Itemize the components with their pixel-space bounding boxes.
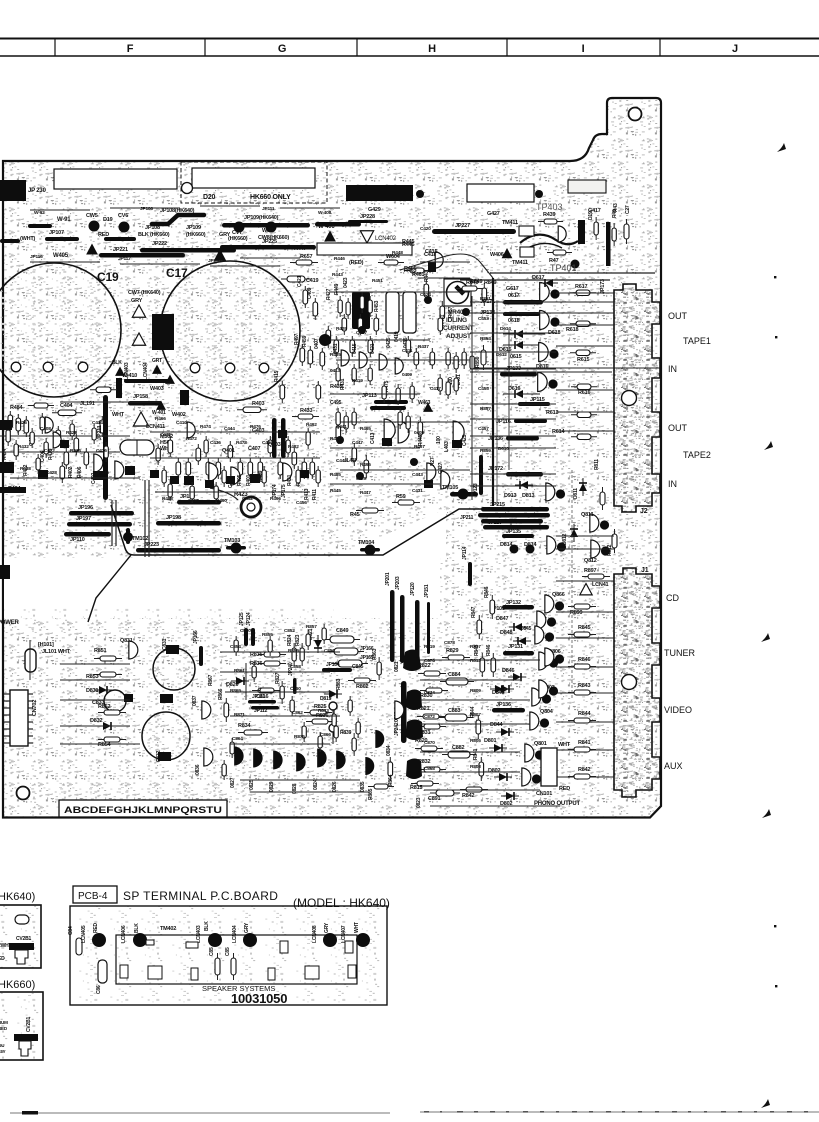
transistor Q802 — [522, 768, 541, 786]
ruler tick — [506, 39, 508, 57]
svg-text:C858: C858 — [290, 664, 301, 670]
transistor Q402 — [45, 417, 53, 433]
resistor R614 — [571, 434, 597, 440]
resistor — [56, 426, 61, 447]
svg-text:R883: R883 — [336, 678, 342, 690]
wire — [220, 671, 330, 673]
svg-text:C404: C404 — [60, 403, 73, 409]
svg-text:RED: RED — [559, 786, 570, 792]
svg-text:TM102: TM102 — [132, 536, 148, 542]
resistor R441 — [440, 301, 445, 324]
wire — [336, 359, 470, 361]
resistor — [214, 482, 218, 503]
resistor — [204, 436, 208, 457]
svg-text:D913: D913 — [504, 493, 516, 499]
svg-text:R496: R496 — [270, 496, 281, 502]
bottom rule dash — [474, 1111, 478, 1113]
svg-text:C456: C456 — [296, 500, 307, 506]
pad — [170, 476, 179, 484]
small square — [305, 966, 319, 979]
svg-text:JP124: JP124 — [246, 612, 252, 626]
jumper JP111 — [248, 700, 276, 704]
svg-text:Q804: Q804 — [540, 709, 554, 715]
svg-text:R406: R406 — [77, 466, 83, 478]
margin mark — [775, 336, 777, 338]
margin mark — [761, 633, 770, 642]
vent hole C17 — [190, 363, 200, 373]
svg-text:JP215: JP215 — [490, 502, 505, 508]
pin — [4, 714, 10, 716]
resistor — [302, 722, 306, 742]
pad — [358, 326, 366, 334]
resistor — [348, 696, 352, 716]
svg-text:JP172: JP172 — [488, 466, 503, 472]
transistor — [94, 454, 103, 472]
pad dot — [535, 190, 543, 198]
svg-text:TM411: TM411 — [512, 260, 528, 266]
transistor Q837 — [202, 701, 211, 719]
resistor — [462, 348, 466, 369]
svg-text:H: H — [428, 43, 436, 55]
test point ring — [329, 724, 337, 732]
svg-text:R657: R657 — [300, 254, 312, 260]
svg-text:JP112: JP112 — [254, 708, 268, 714]
svg-text:R859: R859 — [288, 648, 299, 654]
svg-text:BLK (HK660): BLK (HK660) — [138, 232, 170, 238]
diode D802 — [501, 792, 519, 800]
jumper JP225 — [220, 245, 316, 250]
svg-text:R59: R59 — [396, 494, 406, 500]
pad — [60, 440, 69, 448]
resistor — [326, 326, 331, 348]
svg-text:R865: R865 — [368, 788, 374, 800]
bottom rule dash — [572, 1111, 577, 1113]
svg-text:JP136: JP136 — [496, 702, 511, 708]
svg-text:R871: R871 — [234, 712, 245, 718]
svg-text:JP115: JP115 — [530, 397, 545, 403]
transistor 0827 (black) — [234, 747, 244, 766]
transistor — [427, 463, 436, 481]
transistor 0824 (black) — [317, 749, 327, 768]
svg-text:C431: C431 — [412, 488, 423, 494]
capacitor C883 — [439, 714, 473, 721]
wire — [470, 332, 556, 334]
wire — [470, 447, 556, 449]
svg-text:C457: C457 — [478, 426, 489, 432]
svg-text:J1: J1 — [641, 567, 649, 574]
svg-text:(RED): (RED) — [349, 260, 364, 266]
transistor Q615 — [539, 343, 559, 362]
svg-text:0827: 0827 — [230, 777, 236, 788]
resistor JL191 — [90, 387, 117, 393]
svg-text:C86: C86 — [96, 985, 102, 994]
resistor R461 — [404, 268, 430, 273]
svg-text:TAPE2: TAPE2 — [683, 450, 711, 460]
svg-text:C872: C872 — [424, 714, 435, 720]
svg-text:WHT: WHT — [354, 922, 360, 933]
svg-text:0429: 0429 — [356, 476, 366, 482]
svg-text:R425: R425 — [330, 436, 341, 442]
svg-text:C452: C452 — [242, 496, 253, 502]
svg-text:R411: R411 — [312, 489, 318, 500]
svg-text:R614: R614 — [552, 429, 565, 435]
svg-text:R834: R834 — [238, 723, 251, 729]
svg-text:R446: R446 — [334, 256, 345, 262]
resistor — [303, 286, 308, 308]
pad — [92, 933, 106, 947]
jumper bar right of CW8 — [315, 222, 361, 227]
resistor — [60, 462, 65, 483]
connector CN702 — [10, 690, 28, 746]
svg-text:JP203: JP203 — [395, 576, 401, 590]
svg-text:JP225: JP225 — [262, 239, 277, 245]
mounting hole top-right — [629, 108, 642, 121]
svg-text:POWER: POWER — [0, 620, 20, 626]
SP terminal board outer box — [70, 906, 387, 1005]
resistor R822 — [418, 671, 446, 676]
svg-text:R445: R445 — [402, 239, 414, 245]
transistor Q618 — [540, 311, 560, 330]
jumper JP125 (vertical) — [251, 628, 255, 646]
wire — [420, 679, 520, 681]
bottom rule left — [10, 1112, 390, 1114]
resistor — [352, 364, 356, 385]
jumper JP124 (vertical) — [244, 628, 248, 646]
black bar — [9, 943, 34, 950]
svg-text:R867: R867 — [208, 674, 214, 686]
pad — [323, 933, 337, 947]
transistor — [441, 471, 450, 489]
svg-text:JP109(HK640): JP109(HK640) — [244, 215, 279, 221]
transistor Q834 (black) — [375, 730, 384, 748]
resistor R845p — [568, 632, 596, 637]
transistor — [231, 467, 240, 485]
wire marker — [214, 249, 227, 261]
resistor R842b — [460, 787, 488, 792]
transistor C413 pair — [384, 419, 395, 441]
transistor — [115, 461, 124, 479]
small rect — [268, 968, 275, 980]
resistor — [186, 458, 191, 479]
wire — [250, 791, 370, 793]
svg-text:R862: R862 — [356, 684, 368, 690]
pin — [4, 735, 10, 737]
svg-text:D820: D820 — [226, 682, 238, 688]
jumper JP174 (vertical) — [272, 418, 277, 458]
svg-text:R495: R495 — [360, 462, 371, 468]
wire — [556, 389, 614, 391]
wire — [60, 725, 130, 727]
svg-text:ED: ED — [0, 956, 5, 962]
wire — [430, 805, 560, 807]
svg-text:R854: R854 — [98, 742, 111, 748]
resistor — [336, 421, 341, 444]
svg-text:0823: 0823 — [416, 797, 422, 808]
connector strip (top left white rect) — [54, 169, 177, 189]
svg-text:ADJUST: ADJUST — [446, 333, 471, 340]
resistor R825 — [304, 710, 332, 715]
terminal ring R423 — [241, 497, 261, 517]
black pad — [158, 752, 171, 761]
capacitor C831 (can) — [153, 648, 195, 690]
svg-text:C423: C423 — [420, 292, 431, 298]
svg-text:R432: R432 — [18, 444, 29, 450]
vent hole C19 — [11, 362, 21, 372]
diode D813 — [515, 481, 533, 489]
svg-text:LCN406: LCN406 — [121, 925, 127, 943]
svg-text:R857: R857 — [306, 624, 317, 630]
transistor Q423 (power, black) — [352, 292, 370, 329]
transistor Q805col — [535, 626, 554, 644]
wire — [150, 457, 320, 459]
wire — [420, 751, 520, 753]
wire — [110, 207, 180, 209]
wire — [155, 491, 310, 493]
capacitor C419 — [281, 276, 311, 282]
svg-text:R846: R846 — [484, 586, 490, 598]
dashed vertical line — [571, 470, 573, 700]
wire — [230, 743, 330, 745]
wire pair down — [111, 500, 113, 546]
jumper JP198 — [156, 521, 221, 526]
svg-text:R465: R465 — [360, 426, 371, 432]
black pad — [452, 440, 462, 448]
pad circle left of D20 — [182, 183, 193, 194]
fuse M502 capsule — [120, 440, 154, 455]
resistor — [290, 696, 294, 716]
resistor — [374, 314, 379, 335]
resistor — [40, 413, 45, 434]
wire — [420, 261, 470, 263]
svg-text:IN: IN — [668, 364, 677, 374]
resistor — [252, 662, 256, 682]
jumper JP116 — [514, 419, 547, 423]
svg-text:R439: R439 — [543, 212, 555, 218]
vertical wire — [471, 296, 473, 500]
resistor R862 — [348, 678, 376, 683]
diode D820 — [231, 677, 249, 685]
svg-text:R466: R466 — [155, 416, 166, 422]
white rect near TP403 — [568, 180, 606, 193]
resistor R841v — [479, 757, 484, 781]
wire — [420, 659, 540, 661]
svg-text:GRY: GRY — [244, 922, 250, 933]
svg-text:R846: R846 — [486, 644, 492, 656]
wire (curved) — [210, 488, 238, 500]
capacitor C882 — [442, 751, 476, 758]
terminal W403 blob — [180, 390, 189, 405]
resistor — [368, 296, 372, 317]
black bar — [116, 378, 122, 398]
resistor R852 — [98, 710, 126, 715]
svg-text:R438: R438 — [20, 466, 31, 472]
jumper JP222 — [140, 248, 236, 253]
svg-text:LCN403: LCN403 — [196, 925, 202, 943]
vent hole C19 — [43, 362, 53, 372]
small rect — [280, 941, 288, 953]
svg-text:R864: R864 — [388, 774, 394, 786]
jumper JP171 — [503, 300, 543, 305]
svg-text:Q417: Q417 — [356, 330, 367, 336]
small square — [148, 966, 162, 979]
wire — [556, 312, 614, 314]
bottom rule dash — [754, 1111, 757, 1113]
transistor Q804 — [530, 712, 549, 730]
wire — [0, 451, 120, 453]
resistor R830 — [420, 688, 448, 693]
svg-text:I: I — [582, 43, 585, 55]
bottom rule right — [420, 1111, 819, 1113]
jumper JP135 — [502, 534, 534, 538]
resistor R613 — [571, 412, 597, 418]
resistor — [222, 466, 226, 487]
svg-text:C412: C412 — [262, 440, 273, 446]
svg-text:C425: C425 — [462, 434, 468, 446]
resistor R832 — [418, 767, 446, 772]
svg-text:D811: D811 — [573, 488, 579, 499]
svg-text:JP120: JP120 — [410, 582, 416, 596]
resistor — [446, 348, 450, 369]
svg-text:0826: 0826 — [332, 781, 338, 792]
svg-text:D801: D801 — [484, 738, 496, 744]
capacitor C816 — [254, 688, 280, 693]
wire — [470, 435, 556, 437]
small rect — [146, 940, 154, 945]
svg-text:0835: 0835 — [360, 781, 366, 792]
terminal W-401 — [156, 401, 166, 410]
transistor Q617 — [540, 283, 560, 302]
bottom rule dash — [672, 1111, 677, 1113]
wire — [556, 430, 614, 432]
resistor — [176, 458, 181, 479]
wire — [470, 312, 556, 314]
transistor Q820 (black) — [403, 650, 421, 672]
svg-text:R873: R873 — [318, 708, 329, 714]
test point TM104 — [360, 548, 380, 552]
jumper JP123 (vertical) — [479, 455, 483, 495]
svg-text:JP114: JP114 — [462, 546, 468, 560]
svg-text:R851: R851 — [94, 648, 106, 654]
svg-text:03Y: 03Y — [0, 1049, 6, 1054]
transistor Q806 — [539, 652, 558, 670]
svg-text:JP227: JP227 — [455, 223, 470, 229]
diode D618b — [510, 330, 528, 338]
wire — [556, 637, 614, 639]
jumper JP201 (vertical) — [390, 590, 395, 662]
svg-text:C860: C860 — [290, 686, 301, 692]
black bar G417 — [578, 220, 585, 244]
resistor — [8, 411, 13, 432]
resistor R831 — [418, 724, 446, 729]
svg-text:W406: W406 — [490, 252, 504, 258]
svg-text:R823: R823 — [295, 634, 301, 646]
svg-text:R419: R419 — [352, 378, 363, 384]
wire diagonal b — [446, 254, 493, 278]
wire — [470, 351, 556, 353]
resistor — [258, 458, 263, 479]
wire — [245, 663, 247, 700]
wire — [556, 301, 614, 303]
svg-text:C850: C850 — [240, 628, 251, 634]
resistor — [238, 458, 243, 479]
resistor — [446, 378, 450, 399]
pad D814 — [510, 545, 519, 554]
svg-text:JP116: JP116 — [30, 254, 43, 260]
resistor R403 — [237, 407, 267, 413]
jumper JP172 — [506, 472, 543, 477]
resistor — [24, 416, 29, 437]
pad — [424, 296, 432, 304]
resistor R863v — [377, 657, 381, 680]
resistor R616 — [571, 384, 597, 390]
svg-text:JP198: JP198 — [166, 515, 181, 521]
transistor — [187, 422, 195, 438]
diode D19 (vertical) — [594, 217, 598, 240]
resistor — [168, 480, 172, 501]
svg-text:CD: CD — [666, 593, 679, 603]
resistor JL431 — [352, 443, 357, 466]
diode D845 — [496, 685, 514, 693]
jumper JP136c — [492, 708, 525, 713]
wire — [220, 651, 340, 653]
resistor R843 — [568, 690, 596, 695]
wire — [120, 263, 200, 265]
jumper JP240 (vertical) — [293, 678, 297, 694]
margin mark — [761, 1099, 770, 1108]
svg-text:RED: RED — [93, 922, 99, 933]
svg-text:0829: 0829 — [269, 781, 275, 792]
svg-text:0409: 0409 — [402, 372, 412, 378]
transistor Q847 — [537, 611, 556, 629]
wire — [556, 749, 614, 751]
resistor — [268, 636, 272, 656]
pad — [356, 472, 364, 480]
black pad — [93, 471, 103, 480]
capacitor C846 — [252, 688, 278, 693]
bottom rule dash — [638, 1111, 642, 1113]
resistor — [156, 444, 160, 465]
svg-text:JP164: JP164 — [326, 662, 340, 668]
resistor R649 — [456, 286, 483, 291]
svg-text:TM103: TM103 — [224, 538, 240, 544]
svg-text:D812: D812 — [562, 533, 568, 545]
resistor — [230, 738, 234, 758]
terminal triangle GRT — [152, 365, 162, 374]
capacitor vertical pill C84 — [76, 938, 82, 955]
resistor R836b — [306, 719, 334, 724]
svg-text:JL101 WHT: JL101 WHT — [42, 649, 71, 655]
jumper JP221 — [99, 253, 185, 258]
svg-text:10031050: 10031050 — [231, 991, 287, 1006]
svg-text:JP158: JP158 — [133, 394, 148, 400]
pad dot — [571, 260, 580, 269]
resistor — [322, 624, 326, 644]
jumper JP151 (vertical) — [427, 602, 430, 654]
svg-text:0425: 0425 — [386, 337, 392, 348]
svg-text:JP228: JP228 — [360, 214, 375, 220]
pad — [243, 933, 257, 947]
svg-text:R866: R866 — [218, 688, 224, 700]
jumper JP196 — [69, 511, 134, 516]
transistor Q835 (black) — [365, 757, 374, 775]
svg-text:G: G — [278, 43, 286, 55]
diode D801 — [489, 744, 507, 752]
transistor — [341, 350, 349, 366]
resistor — [168, 436, 173, 457]
resistor — [92, 424, 96, 444]
svg-text:Q801: Q801 — [534, 741, 547, 747]
connector J2 mounting hole — [622, 391, 637, 406]
